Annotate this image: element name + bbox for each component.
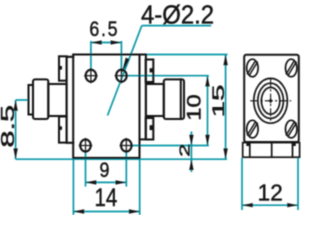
- svg-text:10: 10: [184, 94, 205, 120]
- svg-text:14: 14: [94, 183, 117, 211]
- svg-text:6.5: 6.5: [89, 17, 119, 41]
- svg-text:4-Ø2.2: 4-Ø2.2: [141, 1, 214, 30]
- svg-text:2: 2: [177, 144, 193, 157]
- svg-text:15: 15: [209, 84, 228, 117]
- svg-text:12: 12: [258, 179, 283, 205]
- svg-text:8.5: 8.5: [0, 105, 18, 148]
- svg-text:9: 9: [100, 158, 110, 182]
